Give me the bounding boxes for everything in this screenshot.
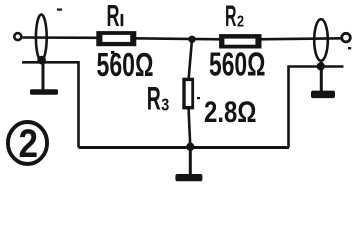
svg-text:R: R: [225, 0, 237, 33]
svg-text:3: 3: [161, 95, 169, 115]
svg-text:560Ω: 560Ω: [209, 46, 266, 83]
svg-text:560Ω: 560Ω: [97, 46, 154, 83]
svg-text:2: 2: [237, 14, 244, 31]
svg-text:2.8Ω: 2.8Ω: [204, 96, 257, 129]
svg-text:R: R: [107, 0, 120, 33]
svg-text:R: R: [147, 80, 161, 116]
svg-text:2: 2: [19, 122, 39, 166]
